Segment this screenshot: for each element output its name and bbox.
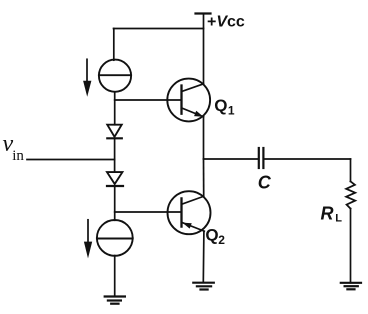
svg-text:C: C — [258, 173, 272, 193]
wire Q1 emitter to output node — [203, 117, 205, 159]
resistor RL zigzag — [346, 181, 355, 208]
transistor Q1 (NPN) — [167, 79, 210, 122]
svg-text:L: L — [335, 213, 342, 225]
ground (below Q2) — [193, 282, 214, 284]
wire between diodes (vin node) — [114, 138, 116, 172]
svg-text:1: 1 — [228, 104, 235, 118]
arrow I1 current direction — [86, 59, 88, 82]
current source I2 (bottom) — [97, 220, 133, 256]
diode D1 — [107, 125, 121, 137]
wire output node down to Q2 emitter — [203, 159, 205, 196]
wire left column to I1 top — [113, 29, 115, 61]
svg-text:in: in — [12, 148, 24, 164]
transistor Q2 (PNP) — [168, 191, 211, 234]
svg-text:R: R — [321, 203, 334, 223]
capacitor C — [258, 148, 260, 168]
wire output node to capacitor — [204, 158, 258, 160]
current source I1 (top) — [99, 60, 131, 92]
svg-text:+Vcc: +Vcc — [207, 14, 245, 31]
wire capacitor to load — [264, 158, 350, 160]
wire RL to ground — [350, 209, 352, 283]
arrow I2 current direction — [87, 220, 89, 244]
ground (below current source I2) — [105, 295, 125, 297]
+Vcc supply terminal tick — [196, 12, 211, 14]
ground (below RL) — [341, 282, 361, 284]
diode D2 — [107, 172, 122, 184]
svg-text:Q: Q — [214, 96, 227, 115]
wire top horizontal (Vcc to current source I1) — [114, 28, 204, 30]
wire Vcc rail vertical upper — [203, 14, 205, 85]
wire Q2 base — [115, 211, 182, 213]
svg-text:2: 2 — [218, 233, 225, 247]
wire Q1 base — [115, 99, 182, 101]
wire D2 to current source I2 — [114, 186, 116, 220]
wire Q2 collector to ground — [202, 231, 205, 283]
svg-text:Q: Q — [205, 226, 218, 245]
wire vin input — [27, 159, 115, 161]
wire I1 to diode node A — [114, 92, 116, 125]
wire down to resistor RL — [350, 159, 352, 181]
wire I2 to ground — [114, 256, 116, 297]
